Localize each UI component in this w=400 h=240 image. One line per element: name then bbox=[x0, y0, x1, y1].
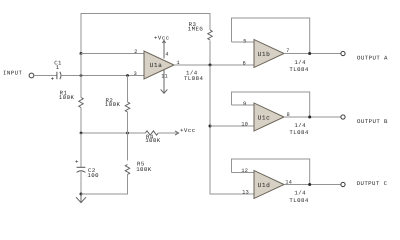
svg-text:2: 2 bbox=[134, 49, 137, 55]
op-amp U1d bbox=[254, 171, 284, 199]
op-amp U1c bbox=[254, 103, 284, 131]
ground bbox=[76, 194, 86, 203]
wire pin2 bbox=[81, 53, 144, 55]
svg-text:+: + bbox=[75, 159, 79, 166]
wire U1d output bbox=[284, 184, 341, 186]
wire mid rail to C2 bbox=[80, 133, 82, 167]
wire R5 top to mid rail bbox=[127, 133, 129, 161]
resistor R1 bbox=[79, 98, 83, 108]
resistor R4 bbox=[145, 131, 158, 135]
junction U1b feedback bbox=[308, 52, 311, 55]
junction bus pin10 bbox=[209, 125, 212, 128]
svg-text:100K: 100K bbox=[105, 101, 121, 108]
output terminal B bbox=[341, 115, 345, 119]
wire mid rail bbox=[81, 132, 145, 134]
svg-text:OUTPUT A: OUTPUT A bbox=[357, 54, 388, 61]
junction mid rail left bbox=[80, 132, 83, 135]
svg-text:100K: 100K bbox=[136, 166, 152, 173]
wire U1c feedback loop bbox=[232, 92, 310, 117]
wire bus vertical bbox=[210, 65, 254, 194]
wire ground node to R5 bbox=[81, 175, 128, 195]
input terminal J1 bbox=[29, 73, 34, 78]
svg-text:INPUT: INPUT bbox=[3, 69, 22, 76]
svg-text:TL084: TL084 bbox=[289, 66, 308, 73]
op-amp U1a bbox=[144, 51, 174, 79]
svg-text:U1c: U1c bbox=[258, 115, 271, 122]
capacitor C2 bbox=[77, 167, 86, 172]
Vcc arrowhead right bbox=[175, 131, 179, 135]
capacitor C1 bbox=[57, 72, 61, 79]
svg-text:12: 12 bbox=[241, 168, 248, 174]
wire U1d feedback loop bbox=[232, 159, 310, 185]
svg-text:6: 6 bbox=[243, 60, 246, 66]
wire U1a output to U1b pin6 bbox=[174, 64, 254, 66]
wire bus to U1c pin10 bbox=[210, 125, 254, 127]
svg-text:5: 5 bbox=[243, 38, 246, 44]
wire C2 to ground node bbox=[80, 172, 82, 194]
svg-text:+Vcc: +Vcc bbox=[154, 35, 169, 42]
svg-text:4: 4 bbox=[165, 51, 168, 57]
wire U1b pin5 stub bbox=[232, 41, 255, 43]
junction U1d feedback bbox=[308, 183, 311, 186]
wire R2 top bbox=[127, 76, 129, 103]
svg-text:100: 100 bbox=[87, 172, 99, 179]
wire U1d pin12 stub bbox=[232, 172, 255, 174]
junction output node bus bbox=[209, 64, 212, 67]
svg-text:+Vcc: +Vcc bbox=[180, 127, 195, 134]
wire input terminal to C1 bbox=[34, 75, 57, 77]
Vcc up arrowhead bbox=[162, 40, 165, 43]
svg-text:11: 11 bbox=[161, 73, 168, 79]
wire R1 to mid rail bbox=[80, 108, 82, 134]
wire U1b output bbox=[284, 53, 341, 55]
svg-text:9: 9 bbox=[243, 101, 246, 107]
svg-text:3: 3 bbox=[134, 71, 137, 77]
resistor R2 bbox=[125, 102, 129, 112]
svg-text:TL084: TL084 bbox=[289, 197, 308, 204]
svg-text:1: 1 bbox=[56, 64, 60, 71]
svg-text:1MEG: 1MEG bbox=[188, 25, 204, 32]
svg-text:13: 13 bbox=[242, 190, 249, 196]
junction R2 top bbox=[126, 74, 129, 77]
wire R4 to Vcc arrow bbox=[158, 132, 177, 134]
svg-text:OUTPUT B: OUTPUT B bbox=[357, 118, 388, 125]
svg-text:U1a: U1a bbox=[150, 62, 163, 69]
U1a ground stub pin 11 bbox=[163, 70, 165, 93]
output terminal C bbox=[341, 182, 345, 186]
svg-text:10: 10 bbox=[241, 121, 248, 127]
wire feedback top rail bbox=[81, 14, 210, 54]
junction ground node bbox=[80, 193, 83, 196]
wire U1c output bbox=[284, 116, 341, 118]
svg-text:100K: 100K bbox=[145, 137, 161, 144]
svg-text:TL084: TL084 bbox=[289, 129, 308, 136]
resistor R3 bbox=[208, 30, 212, 40]
op-amp U1b bbox=[254, 40, 284, 68]
wire U1b feedback loop bbox=[232, 18, 310, 54]
wire U1c pin9 stub bbox=[232, 104, 255, 106]
wire R3 bottom to output node bbox=[209, 41, 211, 66]
svg-text:TL084: TL084 bbox=[184, 75, 203, 82]
wire R2 bottom bbox=[127, 112, 129, 133]
svg-text:U1d: U1d bbox=[258, 182, 271, 189]
svg-text:1/4: 1/4 bbox=[294, 59, 306, 66]
junction pin2 node bbox=[80, 52, 83, 55]
svg-text:U1b: U1b bbox=[258, 51, 271, 58]
junction U1c feedback bbox=[308, 116, 311, 119]
svg-text:1/4: 1/4 bbox=[294, 190, 306, 197]
output terminal A bbox=[341, 51, 345, 55]
junction mid rail R2/R5 bbox=[126, 132, 129, 135]
svg-text:+: + bbox=[51, 75, 55, 82]
junction input node bbox=[80, 74, 83, 77]
resistor R5 bbox=[125, 165, 129, 175]
ground arrowhead pin 11 bbox=[161, 89, 168, 93]
svg-text:100K: 100K bbox=[59, 94, 75, 101]
wire node down to R1 bbox=[80, 54, 82, 98]
U1a Vcc stub pin 4 bbox=[163, 41, 165, 59]
wire C1 to U1a pin3 bbox=[61, 75, 144, 77]
svg-text:OUTPUT C: OUTPUT C bbox=[357, 180, 388, 187]
